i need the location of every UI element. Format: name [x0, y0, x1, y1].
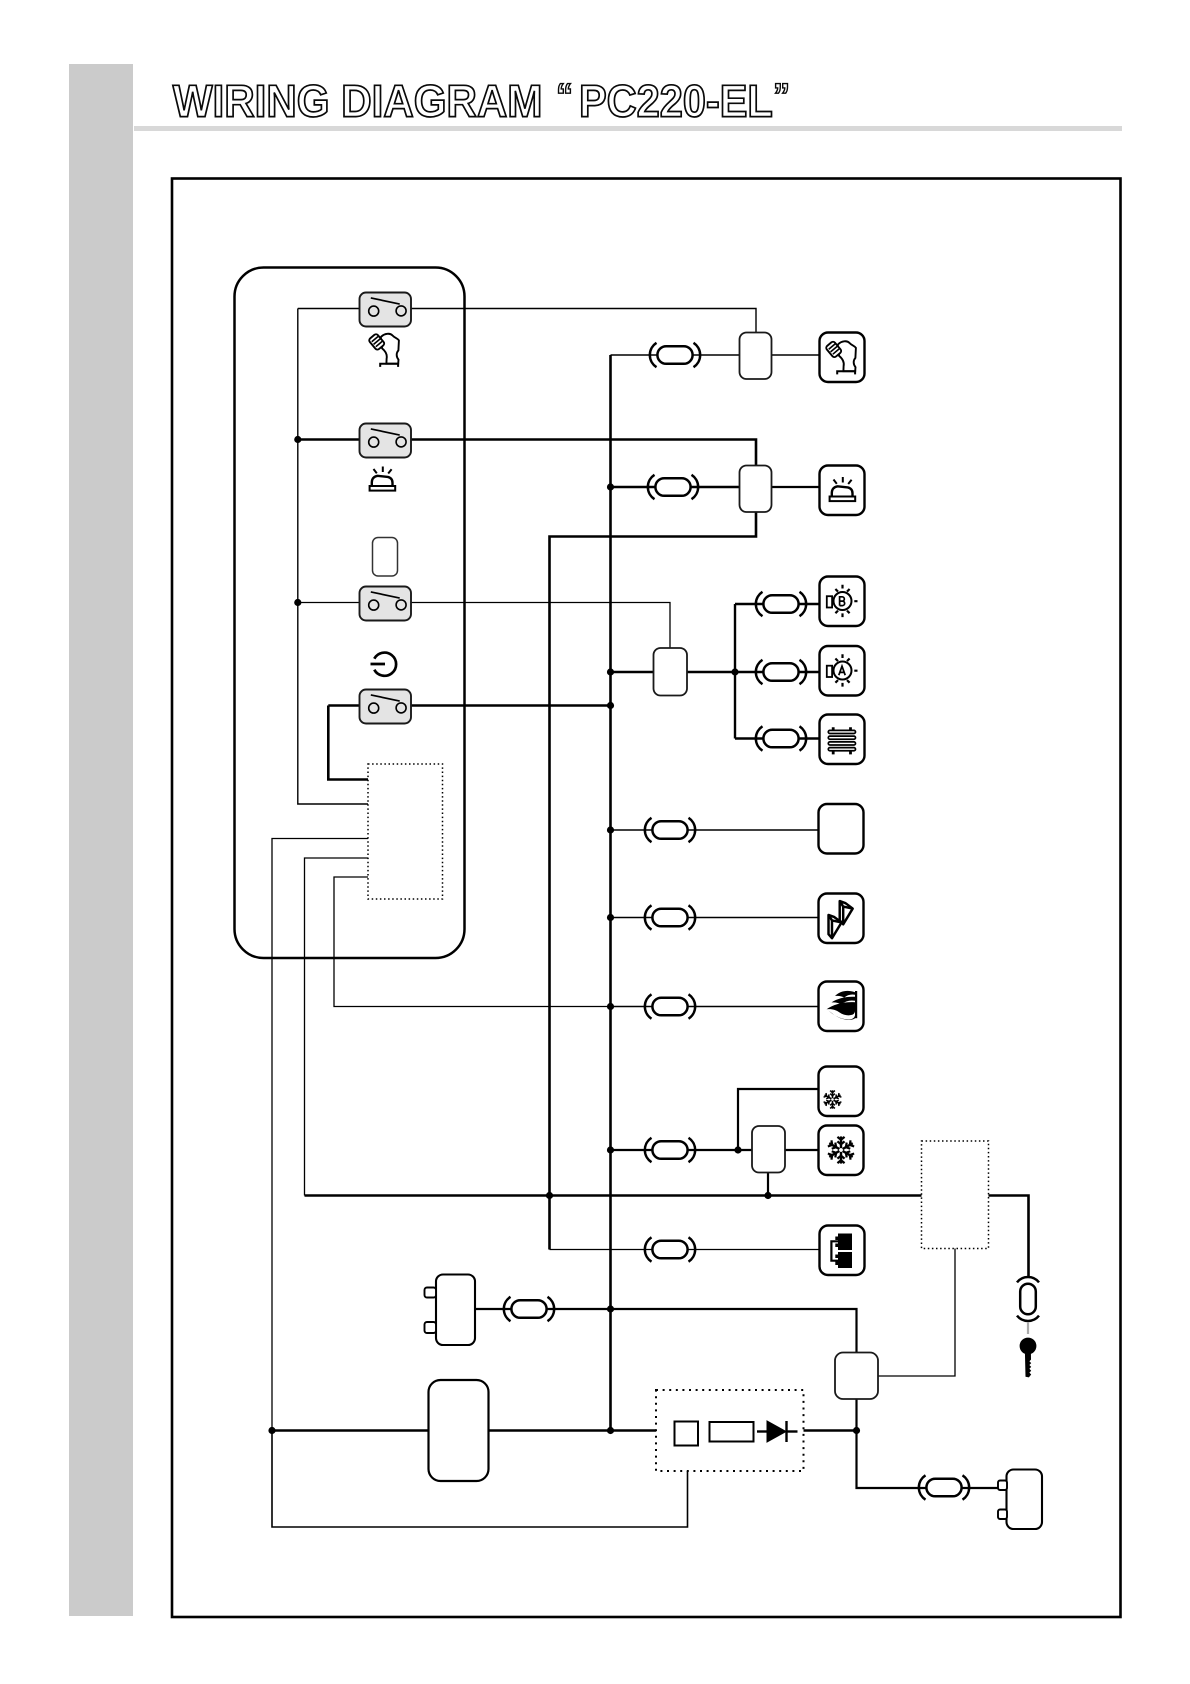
wire: ground return bottom [272, 1431, 688, 1528]
load L4 box [820, 646, 865, 696]
battery terminal 2 [425, 1322, 437, 1333]
load L4 lamp A icon [827, 654, 858, 686]
node: bus-starter row [607, 1427, 614, 1434]
wire: lamp riser vertical [734, 604, 736, 739]
wire: snow small load branch [738, 1089, 820, 1150]
switch S4 [360, 690, 412, 724]
wire: battery row to relay K5 top [475, 1309, 857, 1353]
relay K3 [654, 648, 688, 696]
load L7 crystal icon [829, 901, 853, 938]
ignition switch (dashed box) [922, 1141, 989, 1249]
node: S2 tap [294, 436, 301, 443]
title rule [134, 126, 1122, 131]
load L9 box [819, 1067, 864, 1117]
load L8 flame icon [827, 991, 858, 1020]
connector X2 [648, 475, 698, 499]
grease gun icon (panel) [368, 333, 399, 367]
control panel enclosure [235, 268, 465, 959]
node: lamp riser [731, 668, 738, 675]
power symbol [371, 653, 397, 676]
wire: main supply bus vertical [609, 355, 612, 1431]
diode module (dashed box) [656, 1390, 804, 1471]
connector X4 [756, 660, 806, 684]
load L10 big snowflake icon [827, 1136, 854, 1163]
title: PC220-EL [582, 85, 772, 117]
wire: ignition box bottom to relay K5 right [877, 1249, 955, 1377]
node: bus-spare [607, 826, 614, 833]
battery terminal 1 [425, 1288, 437, 1298]
wire: ignition feed line [305, 1194, 922, 1197]
switch S1 [360, 293, 412, 327]
wire: bus to relay K2 left (via connector X2) [611, 486, 741, 489]
node: starter row left [268, 1427, 275, 1434]
controller U1 (dashed box) [368, 764, 443, 899]
alternator terminal 1 [998, 1481, 1007, 1491]
connector X5 [756, 726, 806, 750]
relay K1 [740, 333, 772, 380]
siren icon (panel) [370, 467, 396, 491]
diode module: resistor element [710, 1422, 754, 1442]
node: bus-snow [607, 1146, 614, 1153]
wire: bus to relay K3 left [611, 671, 655, 673]
blank switch cap [373, 538, 398, 577]
diagram frame [172, 179, 1121, 1618]
connector X3 [756, 592, 806, 616]
relay K4 [752, 1126, 785, 1173]
load L11 trailer socket icon [831, 1234, 852, 1269]
connector X1 [650, 343, 700, 367]
load L3 box [820, 577, 865, 627]
wire: relay K5 bottom down to alternator row [857, 1399, 999, 1488]
alternator terminal 2 [998, 1510, 1007, 1520]
wire: crystal branch to load L7 [611, 917, 820, 919]
connector X8 [645, 994, 695, 1018]
wire: flame branch to load L8 [611, 1006, 820, 1008]
node: bus-battery [607, 1305, 614, 1312]
connector X11 [504, 1297, 554, 1321]
node: K5 bottom [853, 1427, 860, 1434]
wire: switch S2 row to relay K2 top [298, 440, 756, 467]
connector X9 [645, 1138, 695, 1162]
wire: starter row through diode module [272, 1429, 656, 1432]
alternator G1 [1007, 1470, 1043, 1530]
diode module: square element [675, 1422, 699, 1446]
ignition key [1020, 1338, 1037, 1378]
node: S3 tap [294, 599, 301, 606]
battery B1 [436, 1275, 475, 1346]
wire: ignition switch to key connector X13 [989, 1196, 1029, 1278]
wire: switch S4 lead down to controller pin 1 [328, 706, 368, 780]
wire: controller pin 5 to flame branch [334, 877, 611, 1007]
switch S3 [360, 587, 412, 621]
wire: relay K2 bottom return, left vertical return [550, 512, 757, 1250]
wire: switch S3 row to relay K3 top [298, 603, 670, 650]
load L10 box [819, 1126, 864, 1176]
wire: diode module out to relay K5 node [804, 1429, 857, 1432]
node: snow split [734, 1146, 741, 1153]
wire: controller pin 4 down to ignition line [305, 858, 369, 1196]
connector X10 [645, 1237, 695, 1261]
title: closing quote [776, 84, 788, 94]
node: bus-crystal [607, 914, 614, 921]
load L2 box [820, 466, 865, 516]
node: bus-K2 [607, 483, 614, 490]
wire: heater branch [735, 737, 821, 739]
load L3 lamp B icon [827, 585, 858, 617]
connector X13 (vertical) [1017, 1277, 1039, 1321]
diode D1 [757, 1421, 798, 1442]
starter M1 [429, 1380, 489, 1481]
connector X7 [645, 905, 695, 929]
load L8 box [819, 982, 864, 1032]
load L1 grease gun icon [825, 341, 856, 375]
node: bus-S4 [607, 702, 614, 709]
node: ignition line left [546, 1192, 553, 1199]
relay K2 [740, 466, 772, 513]
wire: relay K4 bottom return [767, 1172, 769, 1196]
wire: lamp A branch [735, 671, 821, 673]
wire: controller pin 3 to starter node [272, 839, 368, 1431]
relay K5 [835, 1353, 878, 1400]
wire: switch S1 row to relay K1 top [298, 309, 756, 334]
connector X12 [919, 1475, 969, 1499]
wire: spare branch to load L6 [611, 829, 820, 831]
title: opening quote [559, 84, 571, 94]
wire: relay K3 out to lamp riser [686, 671, 735, 673]
wire: switch S4 row to bus [328, 704, 610, 707]
load L5 box [820, 715, 865, 765]
wire: trailer socket branch [550, 1249, 821, 1251]
load L5 heater icon [828, 727, 855, 754]
wire: bus top to relay K1 left (via connector X1) [611, 354, 741, 356]
node: ignition line K4 return [764, 1192, 771, 1199]
wire: relay K2 to load L2 [771, 486, 821, 488]
load L9 small snowflake icon [823, 1090, 841, 1108]
wire: relay K4 to load L10 [784, 1149, 820, 1151]
key link stub [1027, 1322, 1029, 1334]
wire: switch S1 left lead down to controller pin 2 [298, 309, 368, 805]
load L1 box [820, 333, 865, 383]
wire: relay K1 to load L1 [771, 354, 821, 356]
wire: lamp B branch [735, 603, 821, 605]
title: WIRING DIAGRAM [173, 85, 540, 117]
wire: snow branch bus to relay K4 [611, 1149, 753, 1151]
load L2 siren icon [830, 477, 856, 501]
load L7 box [819, 894, 864, 944]
load L6 box (spare) [819, 804, 864, 854]
sidebar gray bar [69, 64, 134, 1616]
node: bus-flame [607, 1003, 614, 1010]
node: bus-K3 [607, 668, 614, 675]
switch S2 [360, 424, 412, 458]
connector X6 [645, 818, 695, 842]
load L11 box [820, 1226, 865, 1276]
